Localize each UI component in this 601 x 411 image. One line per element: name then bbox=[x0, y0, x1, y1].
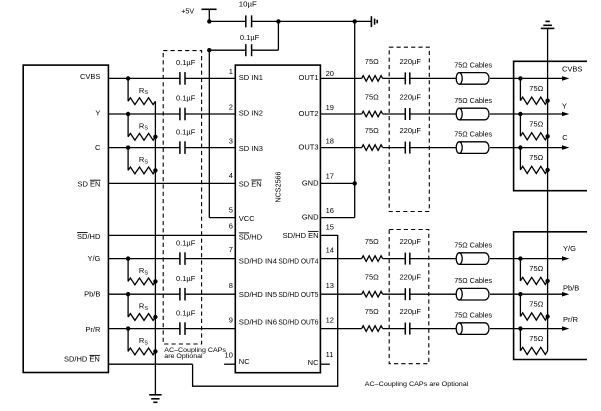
svg-text:0.1µF: 0.1µF bbox=[176, 58, 196, 67]
wire Rs ground bus bbox=[154, 101, 156, 395]
svg-text:NCS2566: NCS2566 bbox=[274, 171, 283, 202]
svg-text:SD/HD IN5: SD/HD IN5 bbox=[239, 290, 277, 299]
svg-text:8: 8 bbox=[229, 281, 233, 290]
svg-text:75Ω: 75Ω bbox=[529, 153, 543, 162]
optional AC-coupling caps dashed box (outputs 1-3) bbox=[389, 47, 429, 211]
junction Rs bus bbox=[153, 349, 157, 353]
wire cap to SD IN3 pin 3 bbox=[185, 147, 235, 149]
wire cable to output OUT5 / Pb/B bbox=[490, 293, 563, 295]
ground top (supply) bbox=[371, 16, 377, 27]
wire 75R to 220uF OUT6 / Pr/R bbox=[383, 328, 406, 330]
svg-text:11: 11 bbox=[326, 350, 334, 359]
svg-text:18: 18 bbox=[326, 137, 334, 146]
pin 15 label SD/HD EN bbox=[283, 231, 319, 240]
wire 220uF to cable OUT1 / CVBS bbox=[410, 77, 456, 79]
svg-text:SD IN1: SD IN1 bbox=[239, 73, 263, 82]
capacitor 0.1uF input row 1 bbox=[176, 58, 196, 85]
wire 10uF to ground bbox=[252, 20, 372, 22]
svg-text:5: 5 bbox=[229, 205, 233, 214]
svg-text:220µF: 220µF bbox=[400, 126, 422, 135]
wire 220uF to cable OUT4 / Y/G bbox=[410, 258, 456, 260]
svg-text:SD/HD IN4: SD/HD IN4 bbox=[239, 257, 277, 266]
wire OUT1 / CVBS to 75R bbox=[320, 77, 361, 79]
wire cable to output OUT3 / C bbox=[490, 147, 563, 149]
wire OUT6 / Pr/R to 75R bbox=[320, 328, 361, 330]
arrow output Y/G bbox=[562, 256, 569, 261]
wire riser bbox=[277, 21, 279, 50]
wire 75R to 220uF OUT1 / CVBS bbox=[383, 77, 406, 79]
svg-text:12: 12 bbox=[326, 316, 334, 325]
capacitor 220uF OUT5 / Pb/B bbox=[400, 273, 422, 301]
resistor 75R series OUT2 / Y bbox=[362, 92, 383, 116]
node Pr/R output junction bbox=[518, 326, 522, 330]
node SD EN label bbox=[77, 180, 100, 189]
svg-text:OUT2: OUT2 bbox=[298, 109, 318, 118]
svg-text:75Ω: 75Ω bbox=[529, 264, 543, 273]
node Y/G output junction bbox=[518, 256, 522, 260]
wire OUT3 / C to 75R bbox=[320, 147, 361, 149]
wire Y input to cap bbox=[108, 113, 179, 115]
capacitor C 0.1uF decoupling bbox=[240, 33, 260, 56]
svg-text:75Ω: 75Ω bbox=[365, 307, 379, 316]
svg-text:220µF: 220µF bbox=[400, 273, 422, 282]
svg-text:SD/HD IN6: SD/HD IN6 bbox=[239, 318, 277, 327]
svg-text:75Ω: 75Ω bbox=[365, 126, 379, 135]
svg-text:75Ω: 75Ω bbox=[365, 273, 379, 282]
node Y/G junction bbox=[126, 256, 130, 260]
termination block HD outputs bbox=[514, 232, 587, 360]
svg-text:0.1µF: 0.1µF bbox=[176, 94, 196, 103]
wire cable to output OUT2 / Y bbox=[490, 113, 563, 115]
wire 220uF to cable OUT5 / Pb/B bbox=[410, 293, 456, 295]
wire 0.1uF to riser bbox=[252, 49, 279, 51]
arrow output Y bbox=[562, 112, 569, 117]
svg-text:0.1µF: 0.1µF bbox=[176, 308, 196, 317]
resistor 75R series OUT5 / Pb/B bbox=[362, 273, 383, 297]
svg-text:GND: GND bbox=[302, 179, 319, 188]
wire SD/HD input pin 6 bbox=[108, 234, 235, 236]
wire 75R to 220uF OUT2 / Y bbox=[383, 113, 406, 115]
svg-text:SD/HD OUT4: SD/HD OUT4 bbox=[278, 257, 318, 266]
svg-text:C: C bbox=[95, 143, 101, 152]
svg-text:75Ω: 75Ω bbox=[529, 334, 543, 343]
pin 6 label SD / HD bbox=[239, 232, 263, 241]
wire OUT2 / Y to 75R bbox=[320, 113, 361, 115]
node 0.1uF branch junction bbox=[207, 48, 211, 52]
capacitor 220uF OUT2 / Y bbox=[400, 92, 422, 120]
wire SD EN input pin 4 bbox=[108, 182, 235, 184]
wire cap to SD/HD IN5 pin 8 bbox=[185, 293, 235, 295]
resistor 75R series OUT1 / CVBS bbox=[362, 57, 383, 81]
svg-text:Pb/B: Pb/B bbox=[84, 290, 100, 299]
wire cable to output OUT1 / CVBS bbox=[490, 77, 563, 79]
svg-text:Pr/R: Pr/R bbox=[563, 315, 579, 324]
wire CVBS input to cap bbox=[108, 77, 179, 79]
arrow output CVBS bbox=[562, 76, 569, 81]
junction termination bus bbox=[545, 279, 549, 283]
node Y output junction bbox=[518, 112, 522, 116]
node SD/HD label bbox=[77, 232, 101, 241]
resistor 75R series OUT4 / Y/G bbox=[362, 237, 383, 261]
wire cap to SD IN2 pin 2 bbox=[185, 113, 235, 115]
svg-text:are Optional: are Optional bbox=[164, 353, 203, 360]
wire 220uF to cable OUT2 / Y bbox=[410, 113, 456, 115]
75 ohm cable OUT5 / Pb/B bbox=[454, 276, 492, 300]
wire C input to cap bbox=[108, 147, 179, 149]
svg-text:75Ω Cables: 75Ω Cables bbox=[454, 276, 492, 285]
earth ground top right bbox=[541, 21, 555, 28]
resistor 75R termination CVBS bbox=[520, 78, 547, 104]
75 ohm cable OUT4 / Y/G bbox=[454, 241, 492, 265]
svg-text:SD/HD: SD/HD bbox=[239, 232, 263, 241]
svg-text:Y: Y bbox=[562, 101, 567, 110]
svg-text:75Ω: 75Ω bbox=[365, 92, 379, 101]
svg-text:SD/HD OUT6: SD/HD OUT6 bbox=[278, 318, 318, 327]
arrow output C bbox=[562, 145, 569, 150]
svg-text:Y/G: Y/G bbox=[87, 254, 100, 263]
node CVBS junction bbox=[126, 76, 130, 80]
wire termination ground bus bbox=[547, 28, 549, 351]
junction Rs bus bbox=[153, 315, 157, 319]
wire Y/G input to cap bbox=[108, 258, 179, 260]
wire OUT4 / Y/G to 75R bbox=[320, 258, 361, 260]
svg-text:OUT3: OUT3 bbox=[298, 143, 318, 152]
pin 10 NC stub bbox=[224, 363, 235, 365]
svg-text:75Ω: 75Ω bbox=[365, 57, 379, 66]
svg-text:0.1µF: 0.1µF bbox=[176, 274, 196, 283]
svg-text:0.1µF: 0.1µF bbox=[176, 238, 196, 247]
svg-text:75Ω Cables: 75Ω Cables bbox=[454, 311, 492, 320]
node Pb/B output junction bbox=[518, 292, 522, 296]
junction Rs bus bbox=[153, 135, 157, 139]
wire SD/HD EN input bbox=[108, 363, 192, 365]
svg-text:2: 2 bbox=[229, 102, 233, 111]
svg-text:75Ω: 75Ω bbox=[529, 84, 543, 93]
wire ground bus bbox=[354, 21, 356, 217]
junction termination bus bbox=[545, 99, 549, 103]
svg-text:4: 4 bbox=[229, 171, 233, 180]
pin 11 NC stub bbox=[320, 363, 329, 365]
node pin 17 ground junction bbox=[353, 181, 357, 185]
wire cap to SD/HD IN4 pin 7 bbox=[185, 258, 235, 260]
capacitor C 10uF bbox=[239, 0, 257, 27]
termination block SD outputs bbox=[514, 61, 587, 190]
capacitor 0.1uF input row 2 bbox=[176, 94, 196, 121]
svg-text:SD/HD EN: SD/HD EN bbox=[283, 231, 319, 240]
capacitor 0.1uF input row 7 bbox=[176, 238, 196, 265]
source device block bbox=[23, 65, 108, 372]
resistor RS on Pr/R bbox=[128, 329, 155, 355]
svg-text:SD/HD: SD/HD bbox=[77, 232, 101, 241]
node SD/HD EN label bbox=[64, 355, 100, 364]
svg-text:SD/HD EN: SD/HD EN bbox=[64, 355, 100, 364]
node CVBS output junction bbox=[518, 76, 522, 80]
junction termination bus bbox=[545, 134, 549, 138]
wire SD/HD EN return bbox=[193, 235, 338, 386]
resistor 75R series OUT6 / Pr/R bbox=[362, 307, 383, 331]
svg-text:7: 7 bbox=[229, 245, 233, 254]
resistor 75R termination Y/G bbox=[520, 259, 547, 285]
svg-text:75Ω: 75Ω bbox=[529, 300, 543, 309]
svg-text:Y: Y bbox=[95, 109, 100, 118]
svg-text:220µF: 220µF bbox=[400, 92, 422, 101]
svg-text:GND: GND bbox=[302, 213, 319, 222]
resistor RS on Y bbox=[128, 114, 155, 140]
capacitor 220uF OUT1 / CVBS bbox=[400, 57, 422, 85]
svg-text:3: 3 bbox=[229, 136, 233, 145]
pin 4 label SD EN bbox=[239, 179, 262, 188]
pin 16 GND stub bbox=[320, 217, 354, 219]
svg-text:C: C bbox=[562, 133, 568, 142]
node Pr/R junction bbox=[126, 326, 130, 330]
+5V supply bbox=[181, 7, 216, 22]
optional AC-coupling caps dashed box (outputs 4-6) bbox=[389, 230, 429, 364]
capacitor 220uF OUT3 / C bbox=[400, 126, 422, 154]
svg-text:220µF: 220µF bbox=[400, 57, 422, 66]
svg-text:13: 13 bbox=[326, 281, 334, 290]
svg-text:VCC: VCC bbox=[239, 214, 255, 223]
resistor 75R termination C bbox=[520, 148, 547, 174]
svg-text:19: 19 bbox=[326, 103, 334, 112]
note AC-Coupling CAPs are Optional (inputs) bbox=[164, 347, 226, 360]
op-amp driver U1 NCS2566 bbox=[235, 65, 320, 373]
ground left bbox=[149, 395, 161, 403]
resistor 75R termination Pr/R bbox=[520, 329, 547, 355]
wire cable to output OUT4 / Y/G bbox=[490, 258, 563, 260]
capacitor 0.1uF input row 8 bbox=[176, 274, 196, 301]
wire Pr/R input to cap bbox=[108, 328, 179, 330]
75 ohm cable OUT3 / C bbox=[454, 130, 492, 154]
svg-text:14: 14 bbox=[326, 246, 334, 255]
svg-text:75Ω: 75Ω bbox=[365, 237, 379, 246]
svg-text:20: 20 bbox=[326, 69, 334, 78]
resistor RS on Pb/B bbox=[128, 294, 155, 320]
junction termination bus bbox=[545, 314, 549, 318]
svg-text:220µF: 220µF bbox=[400, 307, 422, 316]
svg-text:75Ω Cables: 75Ω Cables bbox=[454, 96, 492, 105]
node +5V junction bbox=[207, 19, 211, 23]
node C output junction bbox=[518, 145, 522, 149]
wire +5V rail bbox=[209, 20, 246, 22]
optional AC-coupling caps dashed box (inputs) bbox=[163, 51, 201, 344]
junction Rs bus bbox=[153, 168, 157, 172]
svg-text:SD IN2: SD IN2 bbox=[239, 108, 263, 117]
arrow output Pr/R bbox=[562, 326, 569, 331]
resistor 75R series OUT3 / C bbox=[362, 126, 383, 150]
svg-text:AC–Coupling CAPs are Optional: AC–Coupling CAPs are Optional bbox=[365, 381, 469, 388]
svg-text:220µF: 220µF bbox=[400, 237, 422, 246]
svg-text:15: 15 bbox=[326, 223, 334, 232]
node Pb/B junction bbox=[126, 292, 130, 296]
resistor RS on CVBS bbox=[128, 78, 155, 104]
wire cable to output OUT6 / Pr/R bbox=[490, 328, 563, 330]
arrow output Pb/B bbox=[562, 292, 569, 297]
wire cap to SD IN1 pin 1 bbox=[185, 77, 235, 79]
svg-text:0.1µF: 0.1µF bbox=[240, 33, 260, 42]
pin 17 GND stub bbox=[320, 182, 354, 184]
node decoupling junction bbox=[276, 19, 280, 23]
svg-text:Y/G: Y/G bbox=[563, 244, 576, 253]
svg-text:CVBS: CVBS bbox=[80, 72, 100, 81]
svg-text:10µF: 10µF bbox=[239, 0, 257, 9]
svg-text:75Ω: 75Ω bbox=[529, 120, 543, 129]
75 ohm cable OUT1 / CVBS bbox=[454, 60, 492, 84]
node Y junction bbox=[126, 112, 130, 116]
capacitor 220uF OUT4 / Y/G bbox=[400, 237, 422, 265]
75 ohm cable OUT2 / Y bbox=[454, 96, 492, 120]
wire 75R to 220uF OUT3 / C bbox=[383, 147, 406, 149]
wire 75R to 220uF OUT5 / Pb/B bbox=[383, 293, 406, 295]
svg-text:9: 9 bbox=[229, 315, 233, 324]
svg-text:75Ω Cables: 75Ω Cables bbox=[454, 130, 492, 139]
svg-text:CVBS: CVBS bbox=[562, 65, 582, 74]
svg-text:SD/HD OUT5: SD/HD OUT5 bbox=[278, 290, 318, 299]
node C junction bbox=[126, 145, 130, 149]
svg-text:17: 17 bbox=[326, 171, 334, 180]
junction termination bus bbox=[545, 168, 549, 172]
resistor 75R termination Pb/B bbox=[520, 294, 547, 320]
wire 220uF to cable OUT3 / C bbox=[410, 147, 456, 149]
wire +5V feed to VCC bbox=[209, 50, 235, 217]
svg-text:10: 10 bbox=[225, 350, 233, 359]
svg-text:SD EN: SD EN bbox=[77, 180, 100, 189]
resistor RS on C bbox=[128, 148, 155, 174]
wire OUT5 / Pb/B to 75R bbox=[320, 293, 361, 295]
svg-text:75Ω Cables: 75Ω Cables bbox=[454, 60, 492, 69]
wire 220uF to cable OUT6 / Pr/R bbox=[410, 328, 456, 330]
resistor 75R termination Y bbox=[520, 114, 547, 140]
svg-text:0.1µF: 0.1µF bbox=[176, 127, 196, 136]
svg-text:NC: NC bbox=[308, 358, 319, 367]
svg-text:Pr/R: Pr/R bbox=[85, 325, 101, 334]
svg-text:SD EN: SD EN bbox=[239, 179, 262, 188]
svg-text:1: 1 bbox=[229, 67, 233, 76]
svg-text:SD IN3: SD IN3 bbox=[239, 144, 263, 153]
wire 75R to 220uF OUT4 / Y/G bbox=[383, 258, 406, 260]
svg-text:75Ω Cables: 75Ω Cables bbox=[454, 241, 492, 250]
svg-text:OUT1: OUT1 bbox=[298, 73, 318, 82]
svg-text:6: 6 bbox=[229, 222, 233, 231]
junction Rs bus bbox=[153, 279, 157, 283]
capacitor 220uF OUT6 / Pr/R bbox=[400, 307, 422, 335]
75 ohm cable OUT6 / Pr/R bbox=[454, 311, 492, 335]
svg-text:16: 16 bbox=[326, 206, 334, 215]
node ground rail junction bbox=[353, 19, 357, 23]
svg-text:NC: NC bbox=[239, 357, 250, 366]
svg-text:Pb/B: Pb/B bbox=[563, 283, 579, 292]
resistor RS on Y/G bbox=[128, 259, 155, 285]
wire cap to SD/HD IN6 pin 9 bbox=[185, 328, 235, 330]
wire Pb/B input to cap bbox=[108, 293, 179, 295]
capacitor 0.1uF input row 3 bbox=[176, 127, 196, 154]
svg-text:+5V: +5V bbox=[181, 7, 194, 16]
wire 0.1uF branch bbox=[209, 49, 246, 51]
capacitor 0.1uF input row 9 bbox=[176, 308, 196, 335]
